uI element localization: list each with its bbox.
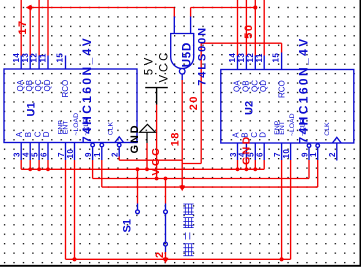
- power VCC symbol: [145, 88, 168, 105]
- svg-text:3: 3: [13, 152, 22, 157]
- wire enable net horizontal: [66, 258, 291, 260]
- U2 pin 7 stub: [281, 143, 283, 160]
- svg-text:12: 12: [30, 53, 39, 63]
- svg-text:~LOAD: ~LOAD: [289, 113, 296, 136]
- text: pin numbers U1: [12, 53, 120, 159]
- U2 pin 10 stub: [290, 143, 292, 160]
- U2 pin 11 stub: [263, 56, 265, 70]
- wire clr net horizontal: [102, 186, 318, 188]
- hanzi ge: [183, 204, 193, 214]
- wire U2 pin9 down: [308, 160, 310, 179]
- svg-text:10: 10: [282, 149, 291, 159]
- U1 clock triangle: [115, 137, 124, 143]
- U1 pin 1 bubble: [100, 143, 104, 147]
- wire preset net horizontal: [21, 168, 264, 170]
- junction vcc stem: [155, 177, 159, 181]
- svg-text:B: B: [24, 132, 33, 137]
- svg-text:6: 6: [256, 152, 265, 157]
- wire U1 pin6 down: [47, 160, 49, 169]
- wire U2 pin14 to top edge: [237, 0, 239, 56]
- svg-text:RCO: RCO: [277, 80, 286, 98]
- svg-text:QB: QB: [241, 80, 250, 92]
- wire gate input B drop: [190, 8, 192, 17]
- junction switch vcc: [164, 177, 168, 181]
- svg-text:D: D: [42, 131, 51, 137]
- U5D output stub: [181, 74, 183, 80]
- junctions preset net: [28, 167, 32, 171]
- wire U2 pin7 down: [281, 160, 283, 259]
- svg-text:11: 11: [255, 53, 264, 62]
- wire U1 pin1 down: [101, 160, 103, 187]
- svg-text:11: 11: [39, 53, 48, 62]
- svg-text:C: C: [34, 131, 43, 137]
- junction U1 pin10 bottom: [72, 257, 76, 261]
- S1 blade: [165, 214, 167, 242]
- svg-text:A: A: [15, 131, 24, 137]
- svg-text:18: 18: [169, 131, 181, 146]
- text: U2 inside labels: [231, 80, 286, 138]
- sheet border right: [359, 0, 361, 266]
- svg-text:QA: QA: [233, 80, 242, 92]
- U1 pin 15 stub: [65, 56, 67, 70]
- switch S1: [136, 204, 168, 253]
- svg-text:RCO: RCO: [61, 80, 70, 98]
- svg-text:2: 2: [154, 252, 166, 258]
- junction gate out on clr net: [179, 186, 185, 192]
- U2 pin 13 stub: [245, 56, 247, 70]
- svg-text:50: 50: [243, 23, 255, 38]
- svg-text:17: 17: [17, 19, 29, 34]
- wire vcc stem red: [156, 105, 158, 179]
- wire U1 pin10 down: [74, 160, 76, 259]
- U1 pin 1 stub: [101, 147, 103, 160]
- svg-text:6: 6: [39, 152, 48, 157]
- U2 pin 1 stub: [317, 148, 319, 160]
- junction U2 pin12: [253, 5, 257, 9]
- svg-text:QD: QD: [43, 79, 52, 91]
- svg-text:U2: U2: [244, 101, 256, 115]
- wire gate input B horizontal: [191, 7, 256, 9]
- wire U2 pin13 to top edge: [245, 0, 247, 56]
- U1 pin 14 stub: [20, 56, 22, 70]
- wire vertical x206: [200, 43, 202, 163]
- text: U1 inside labels: [15, 79, 70, 137]
- svg-text:13: 13: [237, 53, 246, 63]
- U5D input B stub: [190, 16, 192, 34]
- svg-text:14: 14: [12, 53, 21, 63]
- svg-text:2: 2: [111, 152, 120, 157]
- svg-text:QA: QA: [16, 79, 25, 91]
- wire U2 pin5 down: [254, 160, 256, 169]
- svg-text:15: 15: [56, 53, 65, 63]
- svg-text:D: D: [259, 132, 268, 138]
- svg-text:VCC: VCC: [158, 50, 170, 83]
- wire U1 pin4 down: [29, 160, 31, 169]
- U1 pin 2 stub: [118, 147, 120, 156]
- U2 pin 4 stub: [245, 143, 247, 160]
- svg-text:2: 2: [328, 152, 337, 157]
- svg-text:GND: GND: [240, 134, 252, 165]
- wire U1 pin11 to top edge: [47, 0, 49, 56]
- svg-text:QB: QB: [25, 80, 34, 92]
- S1 common terminal: [164, 242, 168, 246]
- wire U2 pin10 down: [290, 160, 292, 259]
- wire switch common down: [165, 252, 167, 259]
- wire gnd stem red: [146, 143, 148, 169]
- U2 pin 6 stub: [263, 143, 265, 160]
- svg-text:15: 15: [272, 53, 281, 63]
- equals sign rotated: [186, 233, 190, 240]
- U1 pin 2 bubble: [117, 143, 121, 147]
- wire U1 pin13 up: [29, 8, 31, 56]
- U2 pin 3 stub: [237, 143, 239, 160]
- U1 pin 7 stub: [65, 143, 67, 161]
- wire U2 pin12 up to net: [254, 0, 256, 56]
- U1 pin 6 stub: [47, 143, 49, 161]
- wire U1 pin9 down: [92, 160, 94, 179]
- wire U1 pin7 down: [65, 160, 67, 259]
- svg-text:U1: U1: [25, 102, 37, 116]
- svg-text:9: 9: [84, 152, 93, 157]
- U1 pin 9 bubble: [91, 143, 95, 147]
- U1 pin 9 stub: [92, 147, 94, 160]
- svg-text:ENT: ENT: [279, 121, 286, 135]
- svg-text:GND: GND: [129, 124, 141, 154]
- svg-text:VCC: VCC: [150, 146, 162, 176]
- svg-text:4: 4: [22, 152, 31, 157]
- wire U1 pin3 down: [20, 160, 22, 169]
- wires red: [21, 0, 318, 259]
- junction arrow net17: [26, 5, 32, 11]
- svg-text:QC: QC: [250, 80, 259, 92]
- U1 pin 12 stub: [38, 56, 40, 70]
- svg-text:1: 1: [309, 152, 318, 157]
- gate U5D body: [171, 16, 194, 80]
- U2 pin 12 stub: [254, 56, 256, 70]
- svg-text:7: 7: [273, 152, 282, 157]
- U1 pin 4 stub: [29, 143, 31, 161]
- text: pin numbers U2: [228, 53, 337, 159]
- wire U2 pin1 down: [317, 160, 319, 187]
- svg-text:74HC160N_4V: 74HC160N_4V: [80, 36, 94, 143]
- svg-text:74LS00N: 74LS00N: [197, 26, 209, 86]
- ground symbol: [140, 124, 156, 143]
- U2 pin 5 stub: [254, 143, 256, 160]
- hanzi jian: [183, 244, 193, 256]
- svg-text:3: 3: [229, 152, 238, 157]
- svg-text:9: 9: [300, 152, 309, 157]
- U2 pin 2 stub: [336, 143, 338, 161]
- text: S1 key label (hanzi approximations): [183, 204, 193, 256]
- U1 pin 5 stub: [38, 143, 40, 161]
- wire U1 pin12 to top edge: [38, 0, 40, 56]
- wire U1 pin5 down: [38, 160, 40, 169]
- svg-text:74HC160N_4V: 74HC160N_4V: [296, 36, 310, 143]
- svg-text:QD: QD: [259, 80, 268, 92]
- S1 pin stubs: [137, 204, 139, 210]
- IC U1 body: [4, 69, 137, 143]
- wire switch throw2 up: [165, 179, 167, 204]
- wire U2 pin11 to top edge: [263, 0, 265, 56]
- S1 throw-2 terminal: [164, 210, 168, 214]
- U2 pin 1 bubble: [316, 144, 320, 148]
- svg-text:CLK: CLK: [107, 122, 114, 136]
- wire U2 pin15 riser: [281, 43, 283, 52]
- svg-text:CLK: CLK: [324, 122, 331, 136]
- U1 pin 11 stub: [47, 56, 49, 70]
- U2 pin 14 stub: [237, 56, 239, 70]
- wire U2 pin4 down: [245, 160, 247, 169]
- wire horizontal y43: [201, 42, 281, 44]
- svg-text:10: 10: [66, 149, 75, 159]
- wire vcc net horizontal: [93, 178, 309, 180]
- sheet border bottom: [0, 265, 361, 267]
- svg-text:5: 5: [30, 152, 39, 157]
- svg-text:S1: S1: [122, 219, 134, 232]
- wire switch branch down: [137, 169, 139, 203]
- U1 pin 10 stub: [74, 143, 76, 161]
- wire net 17 (U1 pin14 to top edge): [20, 0, 22, 56]
- svg-text:12: 12: [246, 53, 255, 63]
- IC U2 body: [221, 70, 354, 144]
- svg-text:U5D: U5D: [182, 42, 194, 67]
- U1 pin 3 stub: [20, 143, 22, 161]
- svg-text:ENT: ENT: [63, 121, 70, 135]
- U5D input A stub: [173, 16, 175, 34]
- wire U1 clk horizontal: [118, 157, 120, 161]
- wire horizontal to gate input A: [27, 7, 175, 9]
- svg-text:20: 20: [188, 95, 200, 110]
- svg-text:QC: QC: [34, 79, 43, 91]
- wire jog horizontal y163.5: [182, 163, 201, 165]
- svg-text:5V: 5V: [144, 54, 156, 75]
- U1 pin 13 stub: [29, 56, 31, 70]
- svg-text:14: 14: [228, 53, 237, 63]
- U2 pin 9 stub: [308, 148, 310, 160]
- junction U2 pin7 bottom: [280, 257, 284, 261]
- U2 clock triangle: [332, 137, 341, 143]
- S1 throw-1 terminal: [136, 210, 140, 214]
- U5D output bubble: [179, 69, 185, 75]
- svg-text:7: 7: [57, 152, 66, 157]
- svg-text:A: A: [231, 132, 240, 138]
- wire gate output down: [181, 80, 183, 187]
- junction switch common bottom: [163, 258, 169, 264]
- svg-text:13: 13: [21, 53, 30, 63]
- wire U2 pin6 down: [263, 160, 265, 169]
- hanzi kong: [183, 218, 193, 228]
- svg-text:1: 1: [93, 152, 102, 157]
- wire gate input A drop: [173, 8, 175, 17]
- U2 pin 15 stub: [281, 53, 283, 70]
- svg-text:~LOAD: ~LOAD: [73, 113, 80, 136]
- U2 pin 9 bubble: [307, 144, 311, 148]
- wire U2 pin3 down: [237, 160, 239, 169]
